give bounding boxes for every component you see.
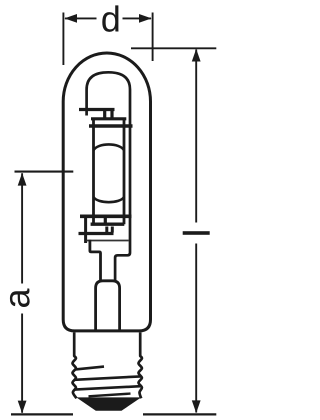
arc tube bottom plate — [80, 215, 132, 219]
pinch seal left outline — [90, 240, 101, 281]
base insulator and contact (solid) — [76, 397, 141, 410]
burner right wall — [123, 119, 126, 224]
pinch seal top edge (faint) — [87, 240, 129, 242]
top support arm — [79, 108, 115, 111]
datum line bottom left segment — [11, 413, 73, 415]
stem flare — [96, 281, 120, 331]
dimension a: vertical line lower segment — [21, 314, 23, 413]
screw base right scalloped side — [139, 332, 142, 398]
dimension d: left dimension line segment — [65, 17, 97, 19]
arc tube top cap — [91, 117, 126, 120]
top clamp stub left — [103, 111, 106, 118]
thread line 4 — [89, 394, 131, 397]
label a (rotated) — [10, 288, 30, 306]
dimension l: top arrowhead — [192, 49, 201, 62]
dimension l: vertical line upper segment — [195, 50, 197, 223]
dimension l: top reference line — [131, 47, 216, 49]
dimension d: right arrowhead — [139, 14, 152, 23]
arc tube bulge top arc — [94, 144, 125, 150]
bottom clamp stub — [104, 218, 107, 224]
arc tube top plate — [89, 124, 133, 128]
outer bulb envelope (tubular with elliptical dome) — [63, 53, 150, 331]
top clamp stub right — [110, 111, 113, 118]
dimension l: vertical line lower segment — [195, 244, 197, 413]
dimension a: vertical line upper segment — [21, 173, 23, 283]
dimension d: left extension line — [62, 13, 64, 66]
dimension d: right dimension line segment — [123, 17, 152, 19]
dimension a: top arrowhead — [18, 173, 27, 186]
arc tube bulge bottom arc — [94, 197, 125, 202]
thread line 3 — [75, 386, 141, 389]
thread line 1 — [76, 367, 105, 370]
screw base left scalloped side — [73, 332, 77, 398]
thread line 2 — [75, 376, 141, 379]
left lead-in wire — [84, 218, 87, 243]
inner wire frame loop over arc tube — [87, 72, 130, 281]
dimension d: right extension line — [152, 13, 154, 62]
getter stub left — [105, 227, 108, 233]
label d — [102, 5, 118, 31]
dimension l: bottom arrowhead — [192, 400, 201, 413]
burner left wall — [92, 119, 95, 224]
getter stub right — [111, 227, 114, 233]
label l (rotated) — [183, 231, 210, 235]
lower support bar — [79, 232, 114, 235]
dimension a: bottom arrowhead — [18, 401, 27, 414]
dimension a: reference line at light centre — [15, 171, 74, 173]
arc tube bottom cap — [91, 222, 125, 225]
dimension d: left arrowhead — [64, 14, 77, 23]
datum line bottom right segment — [143, 413, 216, 415]
